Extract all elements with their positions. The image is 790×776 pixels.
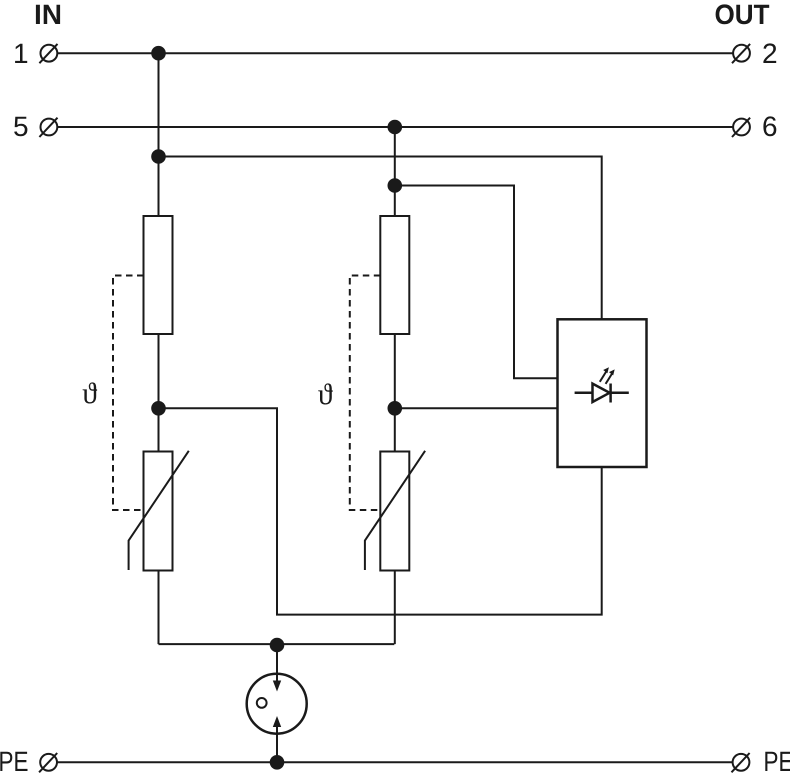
wire PE bus	[57, 761, 732, 763]
wire left branch lower	[158, 571, 160, 645]
terminal 6 label	[763, 116, 776, 136]
label OUT	[716, 4, 770, 24]
terminal 2 label	[763, 43, 776, 63]
junction dot middle branch monitor tap	[388, 178, 403, 193]
terminal 5	[39, 118, 57, 137]
wire spark gap bottom lead	[276, 719, 278, 762]
terminal 2	[732, 44, 750, 63]
wire node1 to indicator box top	[159, 157, 602, 320]
junction dot left branch mid node	[151, 401, 166, 416]
thermal coupling dashed box middle	[350, 276, 381, 511]
fuse F1 thermal disconnector left	[144, 216, 173, 334]
junction dot row1/left branch	[151, 46, 166, 61]
spark gap GDT	[247, 674, 307, 734]
varistor RV1 left	[129, 451, 189, 571]
wire middle branch lower	[394, 571, 396, 645]
terminal PE left label	[0, 752, 27, 771]
wire left branch middle	[158, 334, 160, 452]
terminal 1 label	[15, 44, 27, 63]
terminal PE left	[39, 753, 57, 772]
terminal 1	[39, 44, 57, 63]
wire left branch upper	[158, 53, 160, 216]
LED D1	[575, 367, 629, 402]
terminal PE right	[732, 753, 750, 772]
varistor RV2 middle	[365, 451, 425, 571]
wire middle branch upper	[394, 127, 396, 216]
junction dot middle branch mid node	[388, 401, 403, 416]
theta label middle	[318, 383, 333, 404]
junction dot spark gap top	[270, 638, 285, 653]
wire varistor bottoms link	[159, 643, 395, 645]
terminal 6	[732, 118, 750, 137]
wire middle branch middle	[394, 334, 396, 452]
wire spark gap top lead	[276, 645, 278, 689]
junction dot row2/middle branch	[388, 120, 403, 135]
fuse F2 thermal disconnector middle	[380, 216, 409, 334]
wire node4 to indicator box bottom	[159, 408, 602, 614]
wire line 5-6	[58, 126, 734, 128]
theta label left	[83, 382, 98, 403]
terminal PE right label	[765, 752, 790, 771]
wire node2 to indicator box left upper	[395, 186, 558, 379]
terminal 5 label	[14, 117, 27, 137]
thermal coupling dashed box left	[113, 276, 144, 511]
junction dot left branch monitor tap	[151, 149, 166, 164]
wire line 1-2	[58, 52, 734, 54]
label IN	[36, 5, 60, 24]
junction dot PE bus	[270, 755, 285, 770]
indicator box U1	[558, 319, 647, 467]
wire node3 to indicator box left lower	[395, 407, 558, 409]
